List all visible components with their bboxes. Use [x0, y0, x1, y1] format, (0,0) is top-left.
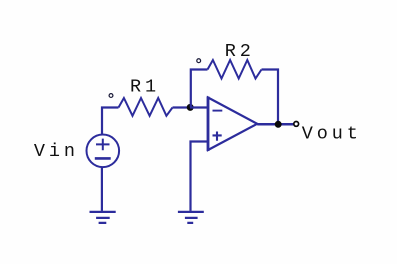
wire Vin bottom to ground	[101, 167, 103, 211]
svg-text:R2: R2	[225, 41, 255, 62]
op-amp plus sign	[213, 132, 222, 141]
ground (op-amp non-inverting input)	[178, 212, 204, 223]
open terminal circle at Vout	[294, 122, 299, 127]
svg-text:Vin: Vin	[34, 141, 79, 162]
wire R2 to right corner and down to output node	[262, 70, 279, 125]
resistor R2	[208, 60, 262, 79]
pin marker circle near R1	[109, 94, 113, 98]
svg-text:R1: R1	[130, 76, 160, 97]
node A junction dot	[187, 104, 194, 111]
pin marker circle near R2	[197, 59, 201, 63]
wire op-amp noninverting input to ground	[191, 142, 209, 211]
output node junction dot	[275, 121, 282, 128]
voltage source Vin circle	[87, 135, 120, 168]
resistor R1	[119, 98, 173, 116]
minus bar inside source	[95, 157, 111, 160]
op-amp left edge emphasis	[207, 97, 210, 152]
op-amp U1 triangle	[208, 98, 257, 151]
op-amp minus sign	[213, 110, 223, 112]
plus sign inside source	[96, 139, 110, 151]
svg-text:Vout: Vout	[302, 124, 362, 145]
wire node A to op-amp inverting input	[190, 106, 208, 108]
wire op-amp output	[257, 123, 293, 126]
ground (below Vin)	[90, 212, 116, 223]
wire R1 to node A	[173, 106, 191, 108]
wire Vin top to R1	[102, 108, 119, 136]
wire feedback left vertical	[191, 70, 208, 108]
